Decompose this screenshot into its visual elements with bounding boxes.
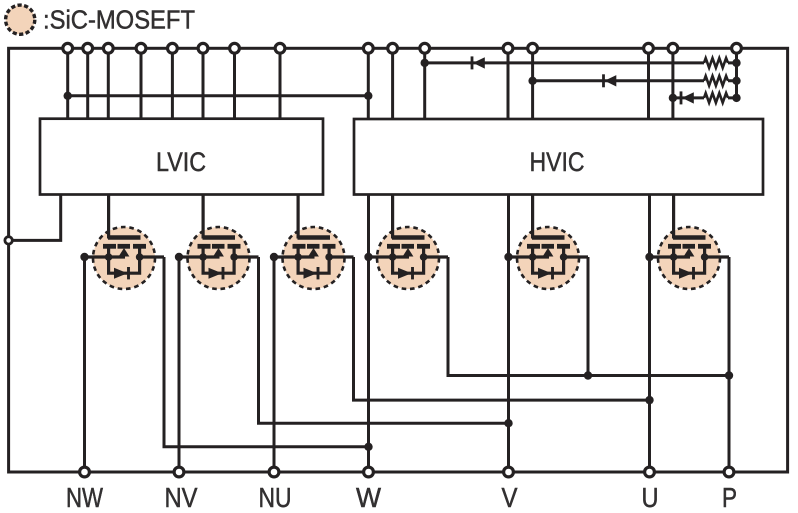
transistor Q3 (SiC-MOSFET NU low side): [270, 195, 354, 290]
NV terminal wire: [178, 257, 181, 472]
svg-text:NV: NV: [165, 482, 198, 513]
LVIC pin wire 3: [107, 48, 110, 118]
legend SiC-MOSFET circle: [6, 5, 35, 34]
top terminal 10: [388, 43, 398, 53]
Q1 drain route wire: [164, 257, 369, 447]
junction dot row1 left: [421, 59, 429, 67]
junction dot row3 right: [732, 94, 740, 102]
top terminal 6: [198, 43, 208, 53]
V terminal wire: [507, 195, 510, 473]
transistor Q4 (SiC-MOSFET W high side): [364, 195, 448, 290]
Q4 drain route wire: [448, 257, 729, 376]
top terminal 1: [63, 43, 73, 53]
HVIC block U2: [354, 119, 763, 195]
svg-text:U: U: [642, 482, 659, 513]
row1 wire: [425, 61, 737, 64]
terminal V: [504, 467, 514, 477]
top terminal 14: [644, 43, 654, 53]
LVIC left pin down wire: [9, 195, 61, 241]
row2 wire: [533, 79, 737, 82]
top terminal 16: [732, 43, 742, 53]
diode D3: [681, 91, 694, 104]
left node terminal: [5, 237, 12, 244]
top terminal 13: [528, 43, 538, 53]
terminal NV: [174, 467, 184, 477]
LVIC pin wire 7: [233, 48, 236, 118]
W terminal wire: [367, 195, 370, 473]
junction dot row1 right: [732, 59, 740, 67]
resistor R2: [704, 76, 728, 86]
svg-text:V: V: [502, 482, 518, 513]
HVIC pin wire 4: [507, 48, 510, 119]
Q2 drain route wire: [259, 257, 509, 423]
junction dot row3 left: [669, 94, 677, 102]
terminal NW: [80, 467, 90, 477]
row3 wire: [673, 96, 737, 99]
top terminal circles: [5, 43, 741, 477]
LVIC block U1: [40, 119, 323, 195]
NW terminal wire: [83, 257, 86, 472]
junction dot P route mid: [584, 371, 592, 379]
HVIC pin wire 7: [671, 48, 674, 119]
Q3 drain route wire: [354, 257, 650, 400]
transistor Q1 (SiC-MOSFET NW low side): [80, 195, 164, 290]
svg-text:HVIC: HVIC: [530, 147, 585, 177]
HVIC pin wire 3: [423, 48, 426, 119]
LVIC pin wire 2: [86, 48, 89, 118]
transistor Q5 (SiC-MOSFET V high side): [504, 195, 588, 290]
top terminal 9: [363, 43, 373, 53]
terminal P: [724, 467, 734, 477]
junction dot bus right: [364, 92, 372, 100]
top terminal 15: [668, 43, 678, 53]
junction dot W route: [364, 443, 372, 451]
junction dot V route: [504, 419, 512, 427]
terminal NU: [269, 467, 279, 477]
terminal U: [645, 467, 655, 477]
LVIC pin wire 8: [279, 48, 282, 118]
HVIC pin wire 1: [367, 48, 370, 119]
transistor Q6 (SiC-MOSFET U high side): [645, 195, 729, 290]
svg-text:W: W: [356, 482, 382, 513]
HVIC pin wire 5: [531, 48, 534, 119]
junction dot bus left: [63, 92, 71, 100]
top terminal 7: [230, 43, 240, 53]
top terminal 4: [136, 43, 146, 53]
diode D1: [472, 56, 485, 69]
bus wire: [68, 94, 369, 97]
svg-text::SiC-MOSEFT: :SiC-MOSEFT: [43, 5, 195, 35]
junction dot U route: [645, 396, 653, 404]
resistor R1: [704, 58, 728, 68]
transistor Q2 (SiC-MOSFET NV low side): [175, 195, 259, 290]
junction dot P route right: [725, 371, 733, 379]
top terminal 5: [168, 43, 178, 53]
junction dot row2 left: [528, 77, 536, 85]
top terminal 11: [420, 43, 430, 53]
LVIC pin wire 5: [171, 48, 174, 118]
top terminal 8: [275, 43, 285, 53]
boot wire vertical: [735, 48, 738, 98]
diode D2: [604, 74, 617, 87]
resistor R3: [704, 93, 728, 103]
HVIC pin wire 2: [391, 48, 394, 119]
NU terminal wire: [273, 257, 276, 472]
top terminal 3: [103, 43, 113, 53]
U terminal wire: [648, 195, 651, 473]
HVIC pin wire 6: [647, 48, 650, 119]
LVIC pin wire 1: [66, 48, 69, 118]
top terminal 12: [503, 43, 513, 53]
Q5 drain route wire: [587, 257, 590, 376]
terminal W: [364, 467, 374, 477]
svg-text:NU: NU: [259, 482, 292, 513]
svg-text:LVIC: LVIC: [156, 147, 206, 177]
Q6 drain / P wire: [728, 257, 731, 472]
svg-text:P: P: [722, 482, 737, 513]
top terminal 2: [83, 43, 93, 53]
LVIC pin wire 4: [140, 48, 143, 118]
LVIC pin wire 6: [202, 48, 205, 118]
svg-text:NW: NW: [66, 482, 103, 513]
junction dot row2 right: [732, 77, 740, 85]
